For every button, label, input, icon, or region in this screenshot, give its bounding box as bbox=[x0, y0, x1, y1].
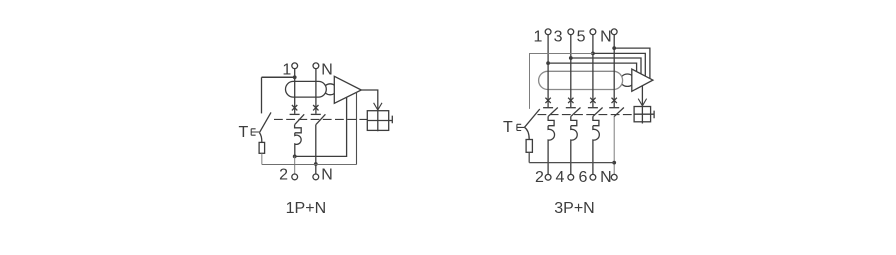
resistor R1 (test) bbox=[259, 142, 265, 153]
svg-text:N: N bbox=[600, 28, 612, 45]
svg-text:N: N bbox=[321, 61, 333, 78]
thermal release pole 5 bbox=[593, 117, 599, 126]
wire pole 5 vertical bbox=[592, 35, 594, 108]
svg-text:N: N bbox=[321, 167, 333, 184]
fixed contact bar pole N bbox=[609, 107, 619, 109]
terminal 1 (top right diagram) bbox=[545, 29, 551, 35]
wire bus A to amplifier bbox=[295, 97, 347, 156]
contact X pole 3 bbox=[568, 98, 573, 103]
svg-text:1: 1 bbox=[534, 28, 543, 45]
trip coil box bbox=[634, 107, 651, 122]
svg-text:3: 3 bbox=[554, 28, 563, 45]
terminal 2 bbox=[292, 174, 298, 180]
terminal 6 bbox=[590, 174, 596, 180]
mechanical linkage dashed bbox=[274, 118, 367, 120]
svg-text:2: 2 bbox=[279, 167, 288, 184]
terminal N bottom bbox=[313, 174, 319, 180]
breaker blade pole N bbox=[614, 108, 624, 117]
trip coil box cross bbox=[634, 107, 651, 124]
fixed contact bar pole 5 bbox=[588, 107, 598, 109]
breaker blade pole N bbox=[316, 114, 326, 124]
coupling circle (CT secondary) bbox=[620, 74, 634, 86]
node tap line 1 bbox=[546, 61, 550, 65]
svg-text:5: 5 bbox=[577, 28, 586, 45]
contact X pole 1 bbox=[545, 98, 550, 103]
trip coil box bbox=[367, 111, 388, 131]
breaker blade pole 3 bbox=[571, 108, 581, 117]
op-amp U1 (trip amplifier) bbox=[334, 76, 361, 103]
wire pole N lower bbox=[315, 125, 317, 174]
wire resistor to bus bbox=[528, 152, 530, 162]
breaker blade pole 5 bbox=[593, 108, 603, 117]
current transformer toroid bbox=[286, 81, 327, 97]
wire amplifier output bbox=[641, 86, 643, 106]
breaker blade pole 1 bbox=[548, 108, 558, 117]
wire bus B test return bbox=[262, 164, 357, 166]
wire pole N vertical bbox=[315, 69, 317, 114]
current transformer toroid bbox=[539, 71, 623, 89]
wire bus B riser bbox=[356, 92, 358, 164]
node N output bbox=[314, 162, 318, 166]
svg-text:T: T bbox=[239, 124, 249, 141]
wire tap 3 to amplifier bbox=[571, 58, 641, 74]
trip coil anchor bar bbox=[651, 111, 655, 119]
op-amp U2 (trip amplifier) bbox=[632, 69, 653, 91]
thermal release pole 1 bbox=[548, 117, 554, 126]
contact X pole 5 bbox=[590, 98, 595, 103]
terminal 5 bbox=[590, 29, 596, 35]
svg-text:3P+N: 3P+N bbox=[554, 200, 594, 217]
wire test tap horizontal bbox=[262, 76, 295, 78]
magnetic release pole 3 bbox=[571, 126, 577, 175]
fixed contact bar pole 1 bbox=[543, 107, 553, 109]
magnetic release pole 1 bbox=[548, 126, 554, 175]
wire pole N lower bbox=[613, 117, 615, 175]
svg-text:4: 4 bbox=[556, 169, 565, 186]
wire tap N to amplifier bbox=[614, 48, 650, 78]
wire blade to resistor bbox=[259, 133, 261, 143]
contact X pole 1 bbox=[292, 105, 297, 110]
wire tap 1 to amplifier bbox=[548, 63, 637, 72]
wire pole N vertical bbox=[613, 35, 615, 108]
terminal 3 bbox=[568, 29, 574, 35]
magnetic release pole 5 bbox=[593, 126, 599, 175]
test button T bbox=[517, 124, 525, 130]
breaker blade pole 1 bbox=[295, 114, 305, 124]
node tap line 3 bbox=[569, 56, 573, 60]
svg-text:1: 1 bbox=[282, 61, 291, 78]
svg-text:6: 6 bbox=[579, 169, 588, 186]
mechanical linkage dashed bbox=[538, 114, 635, 116]
coupling circle (CT secondary) bbox=[324, 84, 337, 95]
wire pole 1 vertical bbox=[547, 35, 549, 108]
fixed contact bar pole 3 bbox=[566, 107, 576, 109]
node pole1 output bbox=[293, 155, 297, 159]
arrow into trip coil bbox=[374, 103, 382, 110]
arrow into trip coil bbox=[638, 99, 646, 106]
fixed contact bar pole N bbox=[311, 113, 321, 115]
resistor R2 (test) bbox=[526, 140, 532, 153]
contact X pole N bbox=[313, 105, 318, 110]
svg-text:T: T bbox=[503, 119, 513, 136]
svg-text:N: N bbox=[600, 169, 612, 186]
wire amplifier output bbox=[361, 90, 378, 110]
node junction on line 1 bbox=[293, 75, 297, 79]
trip coil anchor bar bbox=[389, 116, 393, 124]
test switch blade bbox=[525, 109, 540, 127]
node tap line 5 bbox=[591, 52, 595, 56]
node N output bbox=[612, 161, 616, 165]
contact X pole N bbox=[612, 98, 617, 103]
terminal N top bbox=[611, 29, 617, 35]
terminal 4 bbox=[568, 174, 574, 180]
node tap line N bbox=[612, 46, 616, 50]
test button T bbox=[251, 129, 259, 135]
magnetic release pole 1 bbox=[295, 133, 301, 157]
svg-text:1P+N: 1P+N bbox=[286, 200, 326, 217]
svg-text:2: 2 bbox=[535, 169, 544, 186]
wire test feed bbox=[530, 54, 593, 109]
wire pole 1 vertical bbox=[294, 69, 296, 114]
terminal N top bbox=[313, 63, 319, 69]
wire bus test return bbox=[529, 162, 614, 164]
test switch blade bbox=[259, 112, 271, 132]
terminal 1 (top) bbox=[292, 63, 298, 69]
wire test drop vertical bbox=[261, 77, 263, 113]
fixed contact bar pole 1 bbox=[290, 113, 300, 115]
trip coil box cross bbox=[367, 111, 388, 132]
thermal release pole 1 bbox=[295, 125, 302, 133]
wire resistor to bus bbox=[261, 153, 263, 164]
thermal release pole 3 bbox=[571, 117, 577, 126]
terminal 2 bbox=[545, 174, 551, 180]
wire blade to resistor bbox=[525, 127, 530, 139]
wire to terminal 2 bbox=[294, 156, 296, 174]
wire pole 3 vertical bbox=[570, 35, 572, 108]
terminal N bottom bbox=[611, 174, 617, 180]
wire tap 5 to amplifier bbox=[593, 53, 645, 76]
